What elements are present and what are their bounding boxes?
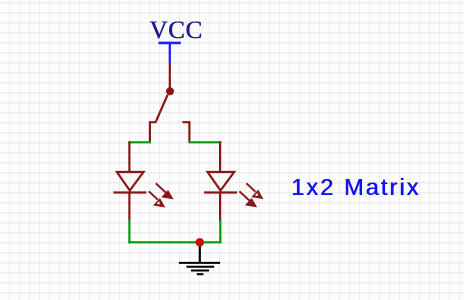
LED D1 cathode bar [113,191,146,193]
wire LED2 cathode down [219,220,221,244]
LED D1 anode lead [128,141,130,172]
wire right contact to LED2 [188,141,221,143]
power symbol VCC bar [159,43,181,63]
LED D2 emission arrow upper (open) [246,183,262,198]
LED D2 emission arrow lower (filled) [239,191,255,206]
switch SW1 pivot [166,87,174,95]
ground symbol [179,263,220,274]
switch SW1 blade [156,95,168,122]
LED D2 cathode bar [204,191,237,193]
wire bottom bus [128,241,221,243]
LED D2 cathode lead [219,193,221,221]
LED D1 emission arrow upper (filled) [156,183,172,198]
switch SW1 right contact [182,121,190,142]
LED D1 cathode lead [128,193,130,221]
wire VCC to switch [169,63,171,88]
LED D2 anode lead [219,141,221,172]
LED D1 triangle [117,172,144,191]
wire left contact to LED1 [128,141,151,143]
wire LED1 cathode down [128,220,130,244]
ground stem [199,242,201,263]
text label 1x2 Matrix [291,174,420,201]
switch SW1 left contact [149,121,157,142]
LED D2 triangle [208,172,235,191]
LED D1 emission arrow lower (open) [149,191,164,206]
net label VCC [149,17,203,45]
junction node [196,238,205,247]
